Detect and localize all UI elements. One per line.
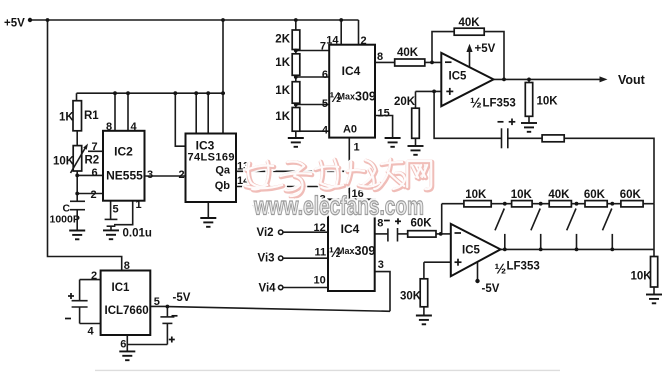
svg-text:15: 15 (378, 108, 390, 120)
svg-text:½: ½ (470, 95, 482, 111)
svg-text:4: 4 (322, 125, 329, 137)
svg-text:IC1: IC1 (112, 282, 131, 294)
svg-text:IC5: IC5 (449, 71, 468, 83)
svg-text:10K: 10K (537, 96, 559, 108)
svg-text:Qa: Qa (215, 165, 231, 177)
svg-text:8: 8 (124, 260, 130, 272)
svg-text:7: 7 (92, 141, 98, 153)
svg-text:7: 7 (320, 41, 326, 53)
svg-text:A0: A0 (343, 124, 357, 136)
svg-text:11: 11 (315, 247, 327, 259)
svg-text:0.01u: 0.01u (123, 227, 152, 239)
svg-text:Vi3: Vi3 (258, 253, 275, 265)
svg-text:4: 4 (88, 326, 95, 338)
svg-text:40K: 40K (548, 189, 570, 201)
svg-text:Max: Max (338, 92, 356, 102)
svg-text:309: 309 (355, 90, 376, 104)
svg-text:LF353: LF353 (483, 98, 516, 110)
svg-text:ICL7660: ICL7660 (105, 305, 149, 317)
svg-text:1K: 1K (59, 112, 74, 124)
svg-text:74LS169: 74LS169 (188, 152, 235, 164)
svg-text:-5V: -5V (173, 292, 191, 304)
svg-text:1K: 1K (275, 57, 290, 69)
svg-text:½: ½ (495, 261, 507, 277)
svg-text:1K: 1K (275, 111, 290, 123)
svg-text:5: 5 (113, 203, 119, 215)
svg-text:NE555: NE555 (106, 169, 143, 183)
svg-text:309: 309 (355, 244, 376, 258)
svg-text:Qb: Qb (215, 180, 231, 192)
svg-text:1000P: 1000P (50, 214, 80, 226)
svg-text:4: 4 (131, 121, 138, 133)
svg-text:2: 2 (91, 189, 97, 201)
svg-text:60K: 60K (584, 189, 606, 201)
svg-text:+5V: +5V (4, 18, 25, 30)
svg-text:8: 8 (377, 51, 383, 63)
svg-text:3: 3 (378, 259, 384, 271)
svg-text:2: 2 (361, 35, 367, 47)
svg-text:12: 12 (314, 222, 326, 234)
svg-text:40K: 40K (397, 47, 419, 59)
svg-text:10K: 10K (511, 189, 533, 201)
svg-text:Vi2: Vi2 (257, 227, 274, 239)
svg-text:Vi4: Vi4 (259, 282, 277, 294)
svg-text:40K: 40K (458, 17, 480, 29)
svg-text:10K: 10K (53, 156, 75, 168)
svg-text:Max: Max (337, 246, 355, 256)
svg-text:5: 5 (154, 296, 160, 308)
svg-text:10K: 10K (631, 271, 653, 283)
svg-text:10K: 10K (465, 189, 487, 201)
svg-text:14: 14 (326, 35, 339, 47)
svg-text:6: 6 (92, 167, 98, 179)
svg-text:10: 10 (314, 275, 326, 287)
svg-text:www.elecfans.com: www.elecfans.com (253, 191, 424, 221)
svg-text:R1: R1 (84, 110, 99, 122)
svg-text:8: 8 (106, 121, 112, 133)
svg-text:2K: 2K (275, 34, 290, 46)
svg-text:5: 5 (322, 98, 328, 110)
svg-text:60K: 60K (620, 189, 642, 201)
svg-text:6: 6 (120, 338, 126, 350)
svg-text:3: 3 (147, 169, 153, 181)
svg-text:+5V: +5V (475, 43, 496, 55)
svg-text:30K: 30K (400, 291, 422, 303)
svg-text:IC4: IC4 (341, 222, 360, 236)
svg-text:R2: R2 (85, 155, 100, 167)
svg-text:IC4: IC4 (342, 64, 361, 78)
svg-text:1: 1 (136, 199, 142, 211)
svg-text:IC5: IC5 (462, 244, 481, 256)
svg-text:1: 1 (354, 142, 360, 154)
svg-text:6: 6 (322, 69, 328, 81)
svg-text:20K: 20K (394, 96, 416, 108)
svg-text:2: 2 (91, 270, 97, 282)
svg-text:LF353: LF353 (507, 261, 540, 273)
svg-text:1K: 1K (275, 85, 290, 97)
svg-text:-5V: -5V (482, 283, 500, 295)
svg-text:IC2: IC2 (114, 145, 133, 159)
svg-text:2: 2 (179, 169, 185, 181)
svg-text:Vout: Vout (618, 73, 646, 87)
svg-text:IC3: IC3 (196, 139, 215, 153)
